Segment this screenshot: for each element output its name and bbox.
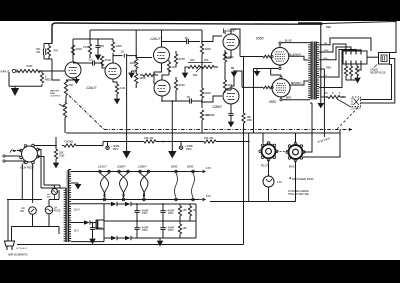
resistor R8 (V2 grid): [100, 56, 111, 68]
svg-text:450V: 450V: [186, 148, 192, 151]
wire: V3 cathode to V4 grid chain: [154, 65, 162, 84]
capacitor C6 (lower coupling to driver): [161, 95, 202, 104]
wire: bias right edge: [195, 204, 197, 238]
wire: bias feed vertical (x=176): [168, 100, 176, 158]
tube V7 (6550 upper): [271, 48, 289, 66]
wire: top border thick segment to transformer: [298, 22, 322, 25]
diode D3: [110, 236, 118, 240]
svg-text:470K: 470K: [26, 64, 33, 68]
resistor R27 (speaker load b): [349, 64, 352, 80]
svg-text:150V: 150V: [168, 229, 174, 232]
svg-text:.02: .02: [88, 58, 92, 62]
svg-text:BLUE: BLUE: [285, 40, 292, 43]
letterbox black bar bottom: [0, 260, 400, 283]
cable receptacle J2: [370, 53, 390, 75]
dashed chassis line (horizontal): [104, 129, 352, 131]
resistor R28 (speaker load c): [355, 64, 358, 76]
dashed link to selector: [337, 107, 359, 130]
output transformer T2 secondary winding: [316, 42, 319, 100]
svg-text:6550: 6550: [256, 37, 264, 41]
wire: AC input routing: [7, 190, 59, 234]
svg-text:RED: RED: [326, 67, 331, 70]
ground (T1 center tap): [71, 183, 81, 189]
wire: secondary tap 3: [319, 47, 351, 60]
svg-text:6.3V: 6.3V: [206, 167, 211, 170]
svg-text:250: 250: [204, 58, 209, 62]
svg-text:27K: 27K: [83, 45, 88, 49]
feedback network C1/R3: [36, 44, 59, 60]
resistor R33 (bias adj): [188, 204, 195, 221]
svg-text:150: 150: [183, 209, 188, 212]
ground (bleeder): [53, 161, 60, 168]
heater twisted pair (12BH7 b): [139, 170, 150, 201]
svg-text:MEG: MEG: [45, 78, 51, 82]
fuse F2 (line): [45, 206, 61, 214]
wire: V8 plate to transformer (BRN): [280, 97, 310, 101]
resistor R21 (V6 cathode): [223, 78, 232, 93]
potentiometer arrow (damping selector): [337, 99, 351, 107]
choke L1: [62, 140, 108, 148]
svg-text:INPUT: INPUT: [1, 69, 10, 73]
ground (driver bias): [231, 68, 238, 77]
letterbox black bar top: [0, 0, 400, 21]
svg-text:BLK: BLK: [324, 58, 329, 60]
capacitor C11 (bias filter 2): [160, 203, 174, 221]
svg-text:6550: 6550: [171, 165, 178, 169]
capacitor C10 (bias filter 1): [134, 203, 148, 221]
svg-text:PILOT: PILOT: [261, 165, 268, 168]
svg-text:6550: 6550: [269, 100, 276, 104]
svg-text:12BH7: 12BH7: [212, 105, 222, 109]
terminal strip TS1: [343, 49, 367, 64]
wire: jack sleeve to ground: [9, 72, 42, 86]
wire: socket feeds: [263, 103, 340, 157]
resistor R26 (speaker load a): [344, 64, 357, 80]
tube V2 (12AU7 b): [105, 61, 121, 81]
svg-text:6550: 6550: [187, 165, 194, 169]
wire: B+ output from rectifier: [34, 137, 56, 146]
wire: pilot to common: [210, 161, 296, 202]
wire: secondary tap 1 to strip: [319, 38, 371, 51]
wire: top-right frame to receptacle: [323, 22, 396, 53]
wire: screen supply drops: [253, 83, 255, 133]
svg-text:BLO: BLO: [47, 196, 52, 198]
bias supply top wire: [71, 203, 110, 205]
resistor: lower 6550 grid stopper: [263, 86, 273, 89]
wire: secondary tap 5: [319, 50, 361, 88]
wire: bias mid rail: [104, 220, 196, 222]
resistor R10 (V2 cathode): [113, 79, 125, 97]
resistor R6 (V1 plate load): [71, 39, 82, 62]
octal socket X1 (btm view): [259, 142, 278, 168]
wire: rectifier socket drop wires: [22, 164, 32, 203]
svg-text:220K: 220K: [76, 47, 83, 51]
resistor R23 (bias divider): [242, 113, 252, 245]
heater lead (6550 b): [192, 170, 195, 201]
svg-text:2.4K: 2.4K: [120, 86, 126, 90]
svg-text:12BH7: 12BH7: [117, 165, 126, 169]
wire: cathode tie: [254, 65, 283, 83]
resistor R31 (bias divider 1): [178, 204, 187, 221]
diode D4: [124, 236, 132, 240]
switch S1 (AC): [20, 207, 36, 215]
ground (C2): [95, 53, 102, 60]
wire: upper 6550 grid: [240, 55, 273, 58]
resistor R14 (grid next upper): [174, 51, 185, 67]
wire: V8 screen (BRN/WHT): [290, 81, 308, 85]
heater rail arrows right: [199, 167, 211, 201]
resistor R4 (V1 cathode): [64, 78, 73, 102]
svg-text:6.3V: 6.3V: [206, 195, 211, 198]
tube V3 (splitter upper): [154, 45, 170, 65]
splitter balance network R16/R17: [186, 58, 218, 77]
resistor R11 (splitter upper): [130, 31, 138, 69]
wire: C4 to V3 grid: [136, 56, 152, 58]
wire: V5 plate to 6550 grid: [231, 29, 240, 57]
wire: feedback takeoff row: [321, 92, 346, 99]
ground (balance network): [182, 67, 189, 78]
junction dot (B+ node top): [321, 23, 323, 25]
connector block left: [96, 220, 104, 229]
rectifier socket V9 (5AR4): [20, 144, 40, 169]
svg-text:750: 750: [69, 83, 74, 87]
svg-text:.25: .25: [184, 36, 188, 40]
wire: V7 screen (BLU/WHT): [289, 54, 309, 60]
heater rail bottom: [100, 199, 199, 201]
svg-text:CHOKE: CHOKE: [64, 140, 73, 144]
heater twisted pair (12AU7): [99, 170, 111, 201]
capacitor C7 (V6 cathode bypass): [206, 106, 234, 120]
heater rail top: [100, 171, 199, 173]
resistor R32 (bias divider 2): [178, 221, 187, 238]
wire: D1 to D2: [118, 203, 124, 205]
ground (splitter divider): [128, 71, 136, 78]
svg-text:AMP SCHEMATIC: AMP SCHEMATIC: [8, 254, 28, 257]
svg-text:.25: .25: [186, 95, 190, 99]
wire: line cord verticals: [8, 200, 12, 242]
ground (bias): [157, 238, 164, 246]
ground (speaker common): [354, 76, 361, 83]
resistor R18 (driver grid upper): [200, 41, 211, 86]
svg-text:12AU7: 12AU7: [150, 37, 160, 41]
capacitor C5 (upper coupling to driver): [162, 36, 201, 45]
capacitor C8 (filter 40MF): [106, 142, 120, 152]
resistor R20 (V5 plate load): [223, 30, 234, 65]
node A (grid node): [39, 70, 41, 72]
svg-text:CONTROL: CONTROL: [50, 96, 61, 98]
octal socket X2 (btm view): [286, 142, 305, 168]
svg-text:12AU7: 12AU7: [86, 86, 96, 90]
svg-text:TRIAL AT 680 LINE: TRIAL AT 680 LINE: [288, 193, 309, 196]
svg-text:117V 60 CY: 117V 60 CY: [16, 248, 28, 250]
svg-text:.02: .02: [120, 50, 124, 54]
resistor R29 (bleeder): [54, 146, 64, 162]
ground (6550 cathodes): [254, 69, 261, 77]
capacitor C4 (coupling to splitter): [113, 50, 137, 58]
heater lead (6550 a): [175, 170, 178, 201]
svg-text:+50MF: +50MF: [95, 227, 103, 230]
selector box S2 (dashed): [351, 97, 361, 111]
svg-text:MATCHED PAIR: MATCHED PAIR: [292, 177, 313, 181]
capacitor C9 (filter 2): [179, 142, 193, 152]
output transformer T2 primary winding: [308, 42, 311, 100]
B+ feed line (solid horizontal): [66, 132, 340, 134]
capacitor C12 (bias filter 3): [134, 220, 148, 238]
wire: C6 to V6 grid: [202, 96, 222, 102]
svg-text:GRN: GRN: [324, 50, 329, 52]
svg-text:115 V: 115 V: [74, 210, 80, 212]
ground (C7): [228, 120, 235, 127]
wire: strip to receptacle link: [346, 62, 361, 80]
wire: bias feed vertical (x=126): [122, 58, 130, 159]
bias bottom wire: [104, 204, 196, 238]
svg-text:330K: 330K: [139, 76, 146, 80]
wire: B+ rail first stage: [73, 30, 202, 42]
svg-text:MF: MF: [37, 50, 41, 54]
ground (input common, large arrow): [11, 86, 19, 96]
heater twisted pair (12BH7 a): [118, 170, 130, 201]
diode D2: [124, 202, 132, 206]
diode D1: [110, 202, 118, 206]
svg-text:250: 250: [190, 58, 195, 62]
wire: heater feed from T1: [71, 172, 100, 200]
note: bias setting: [288, 190, 309, 196]
input jack J1: [1, 69, 18, 73]
svg-text:150V: 150V: [142, 229, 148, 232]
ground (rectifier frame): [10, 150, 21, 153]
note: matched pair: [289, 177, 313, 182]
svg-text:BAL: BAL: [193, 73, 198, 77]
power transformer T1 primary winding: [64, 188, 66, 242]
diode D5 (bias rectifier feed): [71, 220, 96, 225]
wire: supply drop to socket area: [248, 133, 250, 202]
node B+ junction: [55, 145, 57, 147]
ground (transformer secondary): [317, 97, 324, 108]
svg-text:FUSE: FUSE: [54, 210, 61, 213]
wire: V5 cathode to V6 plate column: [225, 52, 231, 90]
svg-text:10W: 10W: [59, 154, 65, 158]
output transformer T2 core: [313, 42, 315, 100]
dashed link sockets: [277, 151, 288, 153]
svg-text:150: 150: [183, 227, 188, 230]
svg-text:470K: 470K: [179, 57, 186, 61]
wire: global feedback loop top border: [52, 23, 298, 44]
svg-text:6.3V: 6.3V: [277, 181, 282, 184]
capacitor C13 (bias filter 4): [160, 220, 174, 238]
tube V5 (driver upper): [223, 32, 239, 52]
svg-text:220K: 220K: [205, 91, 212, 95]
pilot lamp PL1: [263, 160, 282, 187]
wire: V3 plate to B+ rail: [161, 30, 163, 45]
dashed chassis line (left diagonal): [69, 96, 104, 130]
wire: V6 plate to lower 6550 grid: [231, 71, 263, 87]
svg-text:1K: 1K: [193, 209, 196, 212]
schematic bottom border line: [17, 244, 244, 246]
svg-text:BIAS: BIAS: [289, 166, 295, 169]
svg-text:12BH7: 12BH7: [138, 165, 147, 169]
wire: V7 plate to transformer (BLUE): [279, 40, 308, 48]
svg-text:RECEPTACLE: RECEPTACLE: [370, 71, 386, 74]
resistor R15 (grid next lower): [174, 77, 185, 101]
resistor R13 (V3 cathode link): [167, 60, 176, 75]
wire: strip to receptacle: [367, 56, 379, 58]
svg-text:100K: 100K: [116, 44, 123, 48]
svg-text:RED: RED: [326, 26, 331, 29]
resistor R9 (V2 plate load): [111, 39, 122, 62]
svg-text:12AU7: 12AU7: [98, 165, 107, 169]
svg-text:450V: 450V: [113, 148, 119, 151]
svg-text:BLUE/WHT: BLUE/WHT: [289, 54, 301, 56]
wire: node A to V1 grid: [40, 70, 65, 72]
svg-text:10W: 10W: [247, 118, 253, 122]
resistor R35 (dropping 2): [204, 136, 250, 143]
resistor R36 (B+ dropping to front end): [200, 110, 209, 133]
power transformer T1 core: [66, 170, 68, 242]
wire: socket heater terminals left: [3, 155, 24, 164]
wire: selector returns: [361, 59, 395, 104]
wire: feedback to V1 cathode: [52, 59, 60, 80]
svg-text:22K: 22K: [205, 113, 210, 117]
svg-text:50 V: 50 V: [74, 231, 79, 233]
tube V4 (splitter lower): [154, 78, 170, 98]
tube V6 (driver lower): [223, 86, 239, 106]
svg-text:150V: 150V: [168, 212, 174, 215]
svg-text:15K 2W: 15K 2W: [204, 136, 214, 140]
svg-text:330K: 330K: [130, 61, 137, 65]
capacitor C14 (heater bypass): [89, 222, 103, 245]
svg-text:BRN/WHT: BRN/WHT: [291, 83, 302, 85]
svg-text:G-Y: G-Y: [324, 75, 328, 77]
svg-text:BRN: BRN: [286, 97, 291, 100]
wire: network to V4 cathode: [162, 70, 169, 78]
fuse F1 (HV line): [47, 185, 60, 200]
resistor R22 (6550 grid return upper): [243, 56, 245, 60]
capacitor C2 (decoupling): [95, 39, 104, 53]
dashed chassis arrow end: [349, 128, 352, 131]
svg-text:150V: 150V: [142, 212, 148, 215]
resistor R2 (grid leak 1M): [40, 71, 51, 83]
wire: bias riser x=248: [243, 60, 245, 113]
ground (R10): [114, 97, 121, 104]
wire: B+ riser (RED): [319, 67, 331, 138]
AC plug P1: [5, 241, 29, 250]
capacitor C3 (interstage coupling): [73, 58, 102, 67]
wire: bus to next node: [108, 141, 145, 143]
resistor R12 (splitter lower): [135, 69, 146, 89]
wire: secondary tap 2: [319, 44, 346, 52]
wire: HV secondary to rectifier plates: [38, 150, 66, 189]
svg-text:220K: 220K: [205, 47, 212, 51]
resistor R30 (dropping): [144, 136, 204, 143]
resistor R7 (decoupling): [83, 39, 92, 58]
resistor R34 (V4 grid link): [140, 73, 158, 76]
bias node wire: [132, 203, 196, 205]
resistor R19 (driver grid lower): [200, 86, 211, 108]
wire: feedback bus right of T2: [320, 24, 322, 98]
svg-text:15K 2W: 15K 2W: [144, 136, 154, 140]
wire: T1 taps to bias: [71, 238, 104, 242]
svg-text:.05: .05: [100, 44, 104, 48]
potentiometer R5 (balance): [50, 90, 67, 134]
wire: C5 to V5 grid: [202, 36, 222, 42]
svg-text:47K: 47K: [54, 49, 59, 53]
tube V1 (12AU7 a): [65, 60, 81, 80]
wire: secondary tap 4: [319, 50, 356, 78]
tube V8 (6550 lower): [272, 79, 290, 97]
resistor R1 (input series): [18, 64, 40, 73]
ground (V1 cathode bypass): [73, 78, 80, 85]
power transformer T1 secondary winding: [69, 170, 72, 243]
svg-text:470K: 470K: [105, 58, 112, 62]
svg-text:470K: 470K: [179, 83, 186, 87]
